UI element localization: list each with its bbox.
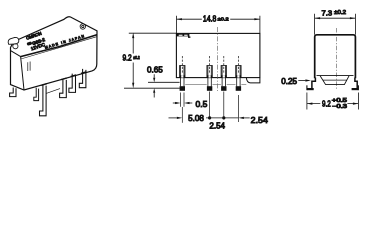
- extension lines up: [315, 14, 356, 35]
- svg-text:9.2: 9.2: [123, 54, 133, 63]
- extension line top left: [129, 32, 177, 34]
- svg-text:7.3: 7.3: [322, 8, 333, 17]
- 2.54 right: [238, 117, 244, 119]
- 5.08: [169, 117, 177, 119]
- pin C gullwing: [69, 74, 76, 93]
- left lead: [312, 78, 316, 89]
- pins: [180, 56, 241, 91]
- front-top edge thick: [21, 35, 97, 57]
- front-top parallel thin line: [21, 37, 97, 59]
- relay body silhouette: [11, 17, 98, 90]
- bottom-right tab: [246, 78, 260, 83]
- rear end pin left: [10, 88, 16, 97]
- body rectangle: [176, 33, 260, 77]
- pin 3: [221, 56, 226, 91]
- 9.2 bottom dim: [307, 93, 359, 110]
- svg-text:5.08: 5.08: [188, 114, 204, 123]
- svg-text:2.54: 2.54: [251, 115, 268, 125]
- 0.5 dim: [181, 93, 184, 107]
- svg-text:0.5: 0.5: [196, 100, 208, 109]
- left end top edge: [10, 50, 20, 56]
- pin 2: [207, 56, 212, 91]
- circle mark left: [13, 44, 18, 49]
- right lead: [355, 78, 357, 89]
- front-left vertical edge: [21, 57, 24, 90]
- svg-text:2.54: 2.54: [209, 121, 225, 130]
- svg-text:±0.2: ±0.2: [334, 10, 346, 16]
- center line: [335, 28, 337, 90]
- mid line between pins: [185, 84, 246, 86]
- seating line: [124, 87, 180, 89]
- seating hint line: [47, 89, 61, 94]
- svg-text:±0.2: ±0.2: [218, 16, 229, 22]
- center line (dash-dot): [217, 27, 219, 91]
- 7.3 dim: [315, 17, 356, 19]
- extension lines up for 14.8: [176, 16, 260, 34]
- dark marking before 12VDC: [26, 41, 32, 46]
- bottom dims: [181, 107, 183, 123]
- svg-text:−0.3: −0.3: [332, 104, 347, 110]
- seam lines on front face: [28, 62, 30, 72]
- pin D gullwing: [79, 69, 86, 88]
- circle mark top right: [80, 24, 85, 29]
- small pin A0: [34, 88, 39, 101]
- 14.8 dim line: [177, 18, 260, 20]
- center trapezoid: [320, 76, 349, 85]
- black step detail top-left: [176, 34, 190, 38]
- pin 4: [236, 56, 241, 91]
- body outline thick: [315, 35, 356, 79]
- notch marks at pin crossings: [41, 72, 86, 86]
- svg-text:14.8: 14.8: [203, 15, 217, 24]
- bottom line: [317, 75, 354, 77]
- svg-text:±0.2: ±0.2: [133, 55, 140, 60]
- svg-text:0.65: 0.65: [147, 66, 163, 75]
- corner bump top-left: [8, 37, 19, 44]
- pin 1: [180, 56, 185, 91]
- pin A gullwing: [40, 85, 47, 116]
- foot top line: [148, 81, 180, 83]
- svg-text:9.2: 9.2: [322, 99, 331, 108]
- svg-text:0.25: 0.25: [281, 77, 297, 86]
- pin B gullwing: [60, 79, 67, 98]
